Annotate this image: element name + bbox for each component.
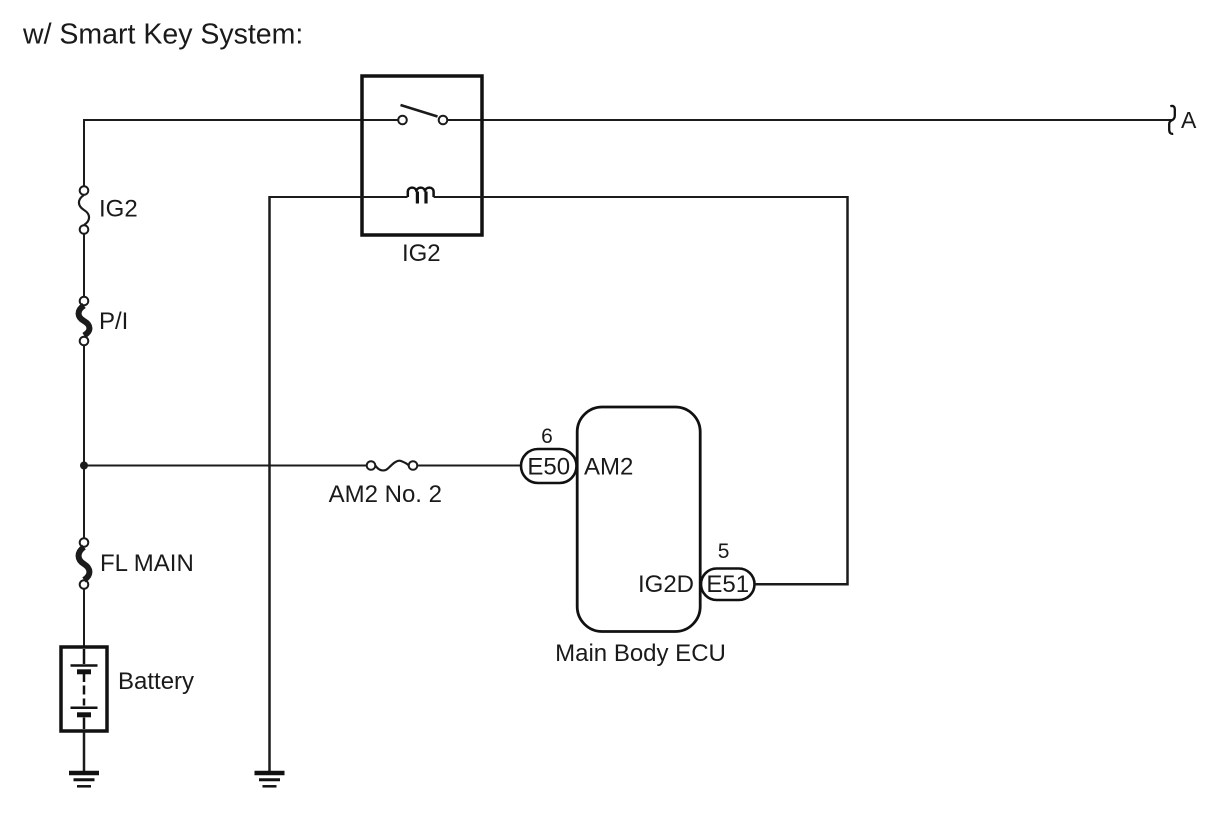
- ground (battery): [69, 773, 99, 786]
- svg-text:A: A: [1181, 107, 1197, 133]
- svg-text:Main Body ECU: Main Body ECU: [555, 640, 726, 667]
- connector A break squiggle: [1169, 106, 1175, 134]
- fusible link FL MAIN: [79, 538, 90, 589]
- svg-text:E50: E50: [527, 453, 570, 480]
- junction dot: [80, 462, 88, 470]
- svg-text:IG2: IG2: [99, 196, 138, 223]
- fuse AM2 No. 2: [367, 461, 418, 471]
- wire E51 to relay coil riser: [755, 196, 848, 584]
- svg-text:E51: E51: [706, 571, 749, 598]
- svg-text:AM2 No. 2: AM2 No. 2: [329, 481, 442, 508]
- svg-text:P/I: P/I: [99, 308, 128, 335]
- wire battery to ground: [83, 731, 86, 772]
- wire battery junction to AM2 fuse: [84, 465, 367, 467]
- wire left vertical feed: [83, 119, 85, 186]
- wire top bus right segment to A: [448, 119, 1173, 121]
- battery: [61, 647, 107, 731]
- connector E50: [521, 449, 577, 483]
- wire: [83, 346, 85, 539]
- svg-text:5: 5: [718, 540, 730, 563]
- wire top bus left segment: [84, 119, 398, 121]
- ECU box: [577, 407, 700, 632]
- wire fuse to E50: [417, 465, 522, 467]
- relay switch contact: [398, 105, 447, 124]
- wire coil left: [270, 196, 408, 198]
- relay coil: [408, 188, 434, 197]
- wire: [83, 234, 85, 297]
- svg-text:IG2: IG2: [402, 240, 441, 267]
- svg-text:w/ Smart Key System:: w/ Smart Key System:: [22, 19, 303, 51]
- fuse IG2: [79, 186, 89, 234]
- svg-text:Battery: Battery: [118, 668, 194, 695]
- svg-text:6: 6: [541, 425, 553, 448]
- relay IG2 box: [362, 76, 482, 235]
- wire coil right to riser: [434, 196, 847, 198]
- svg-text:AM2: AM2: [584, 454, 633, 481]
- fusible link P/I: [79, 297, 90, 346]
- connector E51: [701, 569, 755, 601]
- ground (relay coil): [255, 773, 285, 786]
- svg-text:IG2D: IG2D: [638, 571, 694, 598]
- svg-text:FL MAIN: FL MAIN: [100, 550, 194, 577]
- wire coil ground drop: [268, 196, 271, 772]
- wire: [83, 589, 85, 647]
